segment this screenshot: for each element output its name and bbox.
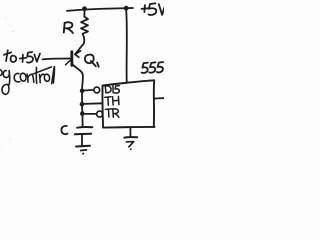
wire Vcc to 555 — [125, 10, 128, 82]
label +5V top right — [142, 3, 166, 15]
label R — [64, 22, 73, 33]
wire DIS pin — [84, 89, 93, 92]
label DIS — [105, 86, 119, 94]
label 555 — [142, 62, 164, 73]
node junction dot TR — [80, 111, 85, 116]
smudges — [1, 18, 13, 147]
op-amp U1 555 box — [102, 80, 154, 127]
resistor R — [81, 11, 88, 44]
capacitor C — [77, 126, 92, 129]
wire TR pin — [85, 113, 97, 115]
transistor Q1 emitter arrowhead — [75, 51, 81, 57]
label Q1 — [85, 55, 99, 67]
node junction dot rail-R — [82, 6, 87, 11]
pin DIS bubble — [94, 87, 100, 93]
wire base from control — [43, 58, 72, 59]
transistor Q1 collector and wire down — [72, 64, 83, 127]
label to +5v — [4, 50, 40, 62]
transistor Q1 emitter — [75, 44, 84, 55]
node junction dot TH — [80, 102, 85, 107]
label TH — [105, 96, 119, 105]
wire TH pin — [84, 102, 102, 105]
label og control — [0, 67, 54, 95]
label TR — [105, 109, 119, 117]
ground C — [76, 145, 90, 148]
pin TR bubble — [97, 111, 103, 117]
wire flourish at base — [66, 59, 73, 65]
wire OUT stub — [155, 97, 165, 99]
node +5V rail — [67, 8, 133, 11]
ground 555 — [129, 128, 131, 137]
node junction dot rail-Vcc — [124, 6, 129, 11]
label C — [61, 126, 67, 134]
transistor Q1 base bar — [70, 52, 73, 66]
node junction dot DIS — [80, 89, 85, 94]
